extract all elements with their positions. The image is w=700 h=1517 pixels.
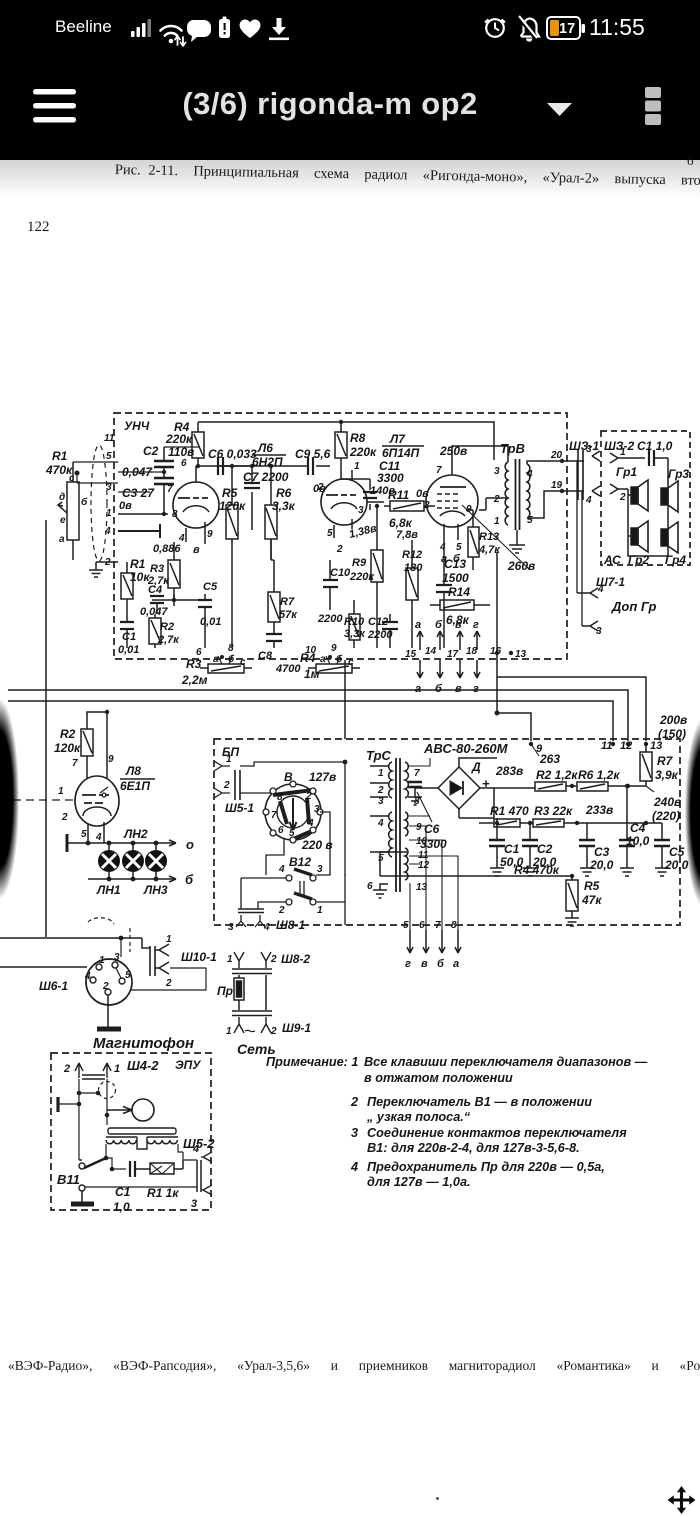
notes block — [266, 1055, 358, 1069]
capacitor C1 — [120, 614, 134, 648]
wire pin5 — [118, 447, 200, 472]
Sh7-1 pin4 arrow — [577, 584, 604, 598]
wire L7 cathode to R13 — [466, 509, 473, 511]
svg-text:2200: 2200 — [367, 629, 393, 641]
node bus junction — [495, 711, 500, 716]
svg-text:2: 2 — [493, 494, 500, 505]
svg-text:Магнитофон: Магнитофон — [93, 1035, 194, 1052]
label pot terminals — [59, 473, 88, 545]
svg-text:3: 3 — [586, 444, 592, 455]
capacitor C3 — [154, 478, 174, 514]
svg-text:7,8в: 7,8в — [396, 529, 418, 541]
chassis bar left — [66, 834, 69, 852]
wire DIN right loop — [131, 968, 206, 990]
wire long vertical left x46 — [45, 520, 47, 937]
svg-text:R7: R7 — [657, 754, 674, 768]
resistor R12 180 — [406, 540, 418, 648]
labels g v b a — [405, 958, 459, 970]
svg-text:R1 1к: R1 1к — [147, 1186, 179, 1200]
ground Sh6-1 — [97, 995, 121, 1029]
wires Sh5-2 — [106, 1144, 183, 1169]
resistor R7 3,9k psu — [640, 744, 652, 786]
svg-text:В12: В12 — [289, 855, 311, 869]
svg-text:б: б — [437, 958, 445, 970]
TrS core — [396, 758, 400, 892]
svg-text:R9: R9 — [352, 557, 367, 569]
svg-text:а: а — [453, 958, 459, 970]
capacitor C2 20,0 — [522, 786, 538, 876]
battery alert icon — [219, 17, 230, 39]
wire bus line b — [8, 690, 628, 741]
svg-text:Доп Гр: Доп Гр — [611, 599, 657, 614]
svg-text:1: 1 — [58, 786, 64, 797]
svg-text:Гр1: Гр1 — [616, 465, 637, 479]
antenna stub — [118, 524, 160, 538]
svg-text:18: 18 — [466, 646, 478, 657]
svg-text:2: 2 — [305, 791, 312, 802]
wire pot to stack — [73, 462, 118, 483]
resistor R1 1k epu — [150, 1160, 183, 1174]
svg-text:4: 4 — [526, 469, 533, 480]
node 16 dot — [495, 651, 499, 655]
svg-text:R12: R12 — [402, 549, 422, 561]
svg-text:R6: R6 — [276, 486, 292, 500]
TrS secondary bottom — [405, 848, 408, 880]
speaker Gr4 — [661, 522, 678, 553]
svg-text:7: 7 — [414, 768, 420, 779]
svg-text:ЛН3: ЛН3 — [143, 883, 168, 897]
svg-text:47к: 47к — [581, 893, 602, 907]
node R6 top — [269, 464, 273, 468]
svg-text:Ш5-1: Ш5-1 — [225, 801, 254, 815]
svg-text:11: 11 — [601, 740, 612, 752]
svg-text:АВС-80-260М: АВС-80-260М — [423, 741, 509, 756]
dashed circle pickup — [99, 1082, 116, 1099]
chassis EPU left — [56, 1097, 59, 1112]
svg-text:ЭПУ: ЭПУ — [175, 1058, 201, 1072]
block AC speaker dashed box — [601, 431, 690, 565]
wire down to Sh7-1 — [577, 461, 582, 626]
potentiometer R1 volume — [58, 462, 79, 560]
svg-text:220к: 220к — [349, 445, 377, 459]
node pot top dot — [75, 471, 80, 476]
label tube L8 pins — [58, 754, 114, 843]
ground V11 — [71, 1191, 94, 1204]
svg-text:14: 14 — [425, 646, 437, 657]
svg-text:0,886: 0,886 — [153, 543, 181, 555]
wire switch to B12 right — [316, 812, 330, 875]
svg-text:C9 5,6: C9 5,6 — [295, 447, 331, 461]
svg-text:С1: С1 — [504, 842, 520, 856]
svg-text:220к: 220к — [165, 432, 193, 446]
resistor R6 1,2k psu — [577, 782, 646, 791]
wire lamps bottom rail — [88, 878, 176, 880]
wire lower left — [96, 562, 118, 570]
svg-text:3,3к: 3,3к — [272, 499, 296, 513]
svg-text:C13: C13 — [444, 557, 466, 571]
svg-text:1500: 1500 — [442, 571, 469, 585]
TrS primary bottom — [389, 812, 392, 857]
svg-text:3: 3 — [228, 922, 234, 933]
svg-text:(220): (220) — [652, 809, 680, 823]
svg-text:2: 2 — [102, 981, 109, 992]
svg-text:5: 5 — [456, 542, 462, 553]
lamp LN2 — [122, 843, 144, 879]
resistor R9 220k — [371, 511, 383, 648]
capacitor C12 — [382, 614, 398, 648]
wire L8 pin9 — [106, 712, 108, 778]
svg-text:R6 1,2к: R6 1,2к — [578, 768, 620, 782]
node 13 dot — [509, 651, 513, 655]
svg-text:1: 1 — [378, 768, 384, 779]
svg-text:3,9к: 3,9к — [655, 768, 679, 782]
svg-text:1: 1 — [166, 934, 172, 945]
svg-text:а: а — [213, 654, 219, 665]
svg-text:6: 6 — [419, 920, 425, 931]
svg-text:2200: 2200 — [317, 613, 343, 625]
svg-text:1: 1 — [114, 1063, 120, 1075]
connector Sh10-1 — [150, 934, 172, 989]
svg-text:Ш9-1: Ш9-1 — [282, 1021, 311, 1035]
label C6 3300 — [420, 822, 447, 851]
tube L8 indicator — [75, 776, 119, 838]
resistor R6 — [265, 466, 277, 560]
svg-text:3: 3 — [106, 482, 112, 493]
svg-text:д: д — [59, 492, 65, 503]
block BP dashed box — [214, 739, 680, 925]
svg-text:220к: 220к — [349, 571, 375, 583]
svg-text:57к: 57к — [279, 609, 298, 621]
svg-text:Д: Д — [471, 760, 481, 774]
svg-text:3,3к: 3,3к — [344, 628, 366, 640]
wire vertical from TrV area to bus — [496, 552, 498, 713]
svg-text:3: 3 — [317, 864, 323, 875]
node R2 R6 dots — [570, 784, 630, 788]
motor circle — [107, 1099, 154, 1121]
Sh3-2 pin2 arrow — [610, 484, 628, 503]
wire top supply rail — [198, 422, 494, 460]
tube L6b triode — [321, 470, 367, 538]
svg-text:233в: 233в — [585, 803, 613, 817]
svg-text:R2: R2 — [160, 621, 174, 633]
svg-text:4: 4 — [439, 542, 446, 553]
block EPU dashed box — [51, 1053, 211, 1210]
TrV core — [516, 459, 520, 530]
left scan blob — [0, 685, 22, 913]
svg-text:3: 3 — [358, 505, 364, 516]
switch V11 — [79, 1158, 106, 1191]
transformer TrV — [505, 459, 530, 530]
svg-text:С3: С3 — [594, 845, 610, 859]
EPU arrows Sh4-2 — [63, 1063, 120, 1078]
chat bubble icon — [187, 20, 211, 42]
svg-text:263: 263 — [539, 752, 560, 766]
svg-text:5: 5 — [106, 451, 112, 462]
svg-text:C4: C4 — [148, 584, 162, 596]
resistor R5 47k psu — [565, 876, 579, 926]
svg-text:б: б — [185, 872, 194, 887]
switch V rotary — [263, 781, 323, 843]
toolbar — [0, 0, 700, 160]
svg-text:4: 4 — [377, 818, 384, 829]
wires speakers — [628, 482, 668, 556]
wire grid line 1 — [118, 513, 168, 515]
Sh3-1 pin3 arrow — [586, 444, 600, 461]
svg-text:а: а — [415, 619, 421, 631]
svg-text:7: 7 — [436, 465, 442, 476]
status bar — [0, 0, 700, 160]
svg-text:в: в — [193, 544, 200, 556]
label V12 pins — [278, 864, 323, 916]
capacitor C6 3300 — [408, 780, 422, 797]
svg-text:ШЗ-1: ШЗ-1 — [569, 439, 599, 453]
svg-text:3300: 3300 — [420, 837, 447, 851]
svg-text:13: 13 — [650, 740, 662, 752]
svg-text:2: 2 — [61, 812, 68, 823]
node 19 — [560, 489, 564, 493]
svg-text:2: 2 — [619, 492, 626, 503]
speaker Gr2 — [631, 521, 648, 552]
svg-text:4: 4 — [307, 818, 314, 829]
capacitor C1 1,0 speaker — [641, 450, 668, 482]
svg-text:Ш6-1: Ш6-1 — [39, 979, 68, 993]
svg-text:6: 6 — [181, 458, 187, 469]
ground C6 — [408, 797, 422, 805]
wire 250v anode to TrV — [452, 446, 508, 462]
svg-text:в: в — [421, 958, 428, 970]
wire C6 to C9 — [223, 465, 302, 467]
svg-text:Ш10-1: Ш10-1 — [181, 950, 217, 964]
arrows a b v g bottom — [417, 660, 480, 678]
labels a b v g top — [415, 619, 479, 631]
svg-text:20,0: 20,0 — [589, 858, 614, 872]
wifi icon — [161, 26, 186, 46]
wire Sh5-1 pin2 to switch — [240, 792, 271, 794]
svg-text:8: 8 — [172, 509, 178, 520]
wire bus line c — [8, 701, 613, 741]
svg-text:а: а — [59, 534, 65, 545]
label TrV pins — [493, 466, 533, 527]
svg-text:10,0: 10,0 — [626, 834, 650, 848]
svg-text:ТрС: ТрС — [366, 748, 392, 763]
svg-text:Л6: Л6 — [257, 441, 273, 455]
pointer 240v — [646, 786, 654, 792]
label switch contacts — [271, 791, 320, 839]
svg-text:С2: С2 — [537, 842, 553, 856]
svg-text:1м: 1м — [304, 667, 320, 681]
label L7 6P14P — [382, 432, 420, 460]
capacitor C1 50,0 — [489, 818, 505, 876]
resistor R4 — [192, 422, 204, 466]
svg-text:127в: 127в — [309, 770, 336, 784]
svg-text:C2: C2 — [143, 444, 159, 458]
wire Sh5-1 pin1 to vertical — [240, 762, 345, 766]
heart icon — [240, 20, 261, 38]
svg-text:б: б — [228, 653, 235, 665]
svg-text:в: в — [455, 619, 462, 631]
rectifier D diamond — [438, 767, 480, 809]
svg-text:R3: R3 — [150, 563, 164, 575]
label TrS pins — [367, 768, 430, 893]
resistor R14 horizontal — [430, 600, 490, 610]
capacitor C2 — [154, 447, 174, 477]
svg-text:2: 2 — [165, 978, 172, 989]
label pot R3 terminals — [196, 643, 246, 668]
connector Sh8-2 forks — [227, 952, 277, 968]
node 233 dot — [575, 821, 579, 825]
wire pin3 — [118, 491, 150, 493]
svg-text:C5: C5 — [203, 581, 218, 593]
svg-text:C1: C1 — [122, 631, 136, 643]
svg-text:Гр3: Гр3 — [668, 467, 689, 481]
svg-text:240в: 240в — [653, 795, 681, 809]
svg-text:10: 10 — [305, 645, 317, 656]
svg-text:9: 9 — [108, 754, 114, 765]
label Sh6-1 pins — [84, 952, 131, 992]
TrS primary top — [389, 762, 392, 798]
resistor R2 120k — [81, 712, 107, 778]
ground small left — [89, 570, 103, 577]
node top rail junction — [339, 420, 343, 424]
resistor R11 horizontal — [384, 501, 435, 511]
svg-text:4700: 4700 — [275, 663, 301, 675]
signal bars icon — [131, 19, 151, 37]
wires V12 lower — [241, 762, 345, 925]
svg-text:с: с — [69, 473, 75, 484]
page top — [0, 160, 700, 198]
connector Sh9-1 bars — [232, 1011, 272, 1016]
resistor R2 1,2k psu — [535, 782, 577, 791]
svg-text:110в: 110в — [168, 445, 194, 459]
svg-text:Ш4-2: Ш4-2 — [127, 1058, 159, 1073]
svg-text:4: 4 — [84, 971, 91, 982]
kebab more icon — [645, 87, 661, 125]
potentiometer R3 2,2m — [200, 656, 252, 673]
coil block Sh5-2 — [106, 1128, 178, 1149]
svg-text:7: 7 — [435, 920, 441, 931]
speaker Gr3 — [661, 481, 678, 512]
node R3-C5 — [172, 598, 176, 602]
svg-text:C8: C8 — [258, 650, 273, 662]
svg-text:2,7к: 2,7к — [157, 634, 180, 646]
svg-text:19: 19 — [551, 480, 563, 491]
svg-text:Л8: Л8 — [125, 764, 141, 778]
svg-text:6П14П: 6П14П — [382, 446, 420, 460]
svg-text:5: 5 — [81, 829, 87, 840]
wire TrV secondary top to Sh3-1 — [527, 461, 584, 464]
bottom text — [8, 1358, 700, 1374]
svg-text:R2: R2 — [60, 727, 76, 741]
capacitor C3 20,0 — [579, 823, 595, 876]
svg-text:R5: R5 — [584, 879, 600, 893]
svg-text:C3 27: C3 27 — [122, 486, 155, 500]
svg-text:1: 1 — [99, 955, 105, 966]
bell muted icon — [518, 16, 540, 42]
svg-text:0в: 0в — [313, 483, 326, 495]
resistor R1 470 psu — [479, 819, 533, 827]
svg-text:R4 470к: R4 470к — [514, 863, 560, 877]
svg-text:260в: 260в — [507, 559, 535, 573]
capacitor C1 epu — [130, 1161, 150, 1177]
svg-text:R10: R10 — [344, 616, 365, 628]
connector Sh8-1 — [228, 909, 270, 933]
diagonal pointer to 260v — [462, 505, 530, 570]
wires TrS secondary to bottom pins — [409, 758, 458, 930]
svg-text:УНЧ: УНЧ — [124, 419, 150, 433]
arrows g v b a — [407, 930, 461, 953]
svg-text:2: 2 — [63, 1063, 70, 1075]
resistor R3 2,7k — [168, 542, 180, 600]
move cursor icon — [666, 1485, 697, 1515]
ground TrS — [373, 890, 387, 898]
capacitor C10 — [323, 560, 338, 610]
svg-text:2: 2 — [336, 544, 343, 555]
capacitor C4 — [146, 594, 174, 614]
svg-text:АС: АС — [603, 553, 621, 567]
svg-text:4: 4 — [263, 922, 270, 933]
ground TrV — [509, 530, 525, 553]
svg-text:17: 17 — [447, 649, 459, 660]
svg-text:а: а — [415, 683, 421, 695]
svg-text:Ш8-2: Ш8-2 — [281, 952, 310, 966]
pointer C6 — [417, 792, 432, 822]
label C3 20,0 — [589, 845, 614, 872]
connector Sh3-1 double lines — [578, 450, 583, 500]
dropdown caret — [547, 103, 572, 116]
resistor R2 2,7k — [149, 614, 161, 648]
svg-text:6: 6 — [367, 881, 373, 892]
wire TrV secondary bottom to pin4 — [527, 491, 584, 518]
resistor R8 — [335, 422, 352, 479]
label pot R4 terminals — [305, 643, 354, 668]
svg-text:е: е — [60, 515, 66, 526]
small speck — [436, 1497, 439, 1500]
label C5 20,0 — [664, 845, 689, 872]
wire anode node — [198, 465, 232, 467]
pins 5 6 7 8 bottom of BP — [403, 920, 457, 931]
svg-text:13: 13 — [515, 649, 527, 660]
svg-text:3: 3 — [314, 804, 320, 815]
wire dash input to L8 — [0, 799, 75, 801]
svg-text:С1 1,0: С1 1,0 — [637, 439, 673, 453]
Sh7-1 pin3 arrow — [582, 621, 602, 637]
node C7 top — [250, 464, 254, 468]
label tube L7 pins — [423, 465, 472, 553]
svg-text:ЛН1: ЛН1 — [96, 883, 121, 897]
svg-text:R1: R1 — [130, 557, 146, 571]
svg-text:3: 3 — [494, 466, 500, 477]
svg-text:2: 2 — [377, 785, 384, 796]
svg-text:с: с — [348, 657, 354, 668]
label C1 50,0 — [500, 842, 524, 869]
svg-text:4: 4 — [104, 526, 111, 537]
transformer TrS — [389, 758, 409, 892]
label tube L6a pins — [167, 458, 213, 544]
label C4 10,0 — [626, 821, 650, 848]
svg-text:4: 4 — [278, 864, 285, 875]
connector EPU right — [183, 1143, 212, 1210]
connector Sh6-1 DIN socket — [86, 959, 132, 1005]
svg-text:7: 7 — [271, 810, 277, 821]
svg-text:С4: С4 — [630, 821, 646, 835]
speaker Gr1 — [631, 480, 648, 511]
svg-text:2,2м: 2,2м — [181, 673, 208, 687]
dashed gang link ellipse — [91, 445, 107, 561]
connector Sh8-2 bars — [232, 969, 272, 974]
svg-text:с: с — [240, 657, 246, 668]
svg-text:R5: R5 — [222, 486, 238, 500]
svg-text:C7 2200: C7 2200 — [243, 470, 289, 484]
